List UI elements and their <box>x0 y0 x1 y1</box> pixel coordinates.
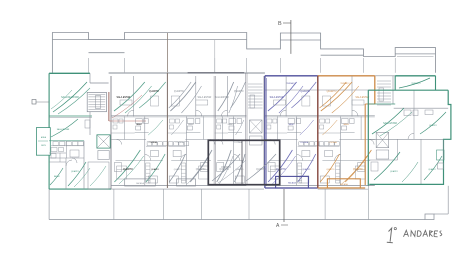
svg-text:COZINHA: COZINHA <box>149 141 158 144</box>
svg-text:QUARTO: QUARTO <box>123 168 133 171</box>
svg-text:SALA ESTAR: SALA ESTAR <box>197 96 211 99</box>
svg-text:COZINHA: COZINHA <box>329 141 338 144</box>
svg-text:QUARTO: QUARTO <box>235 168 244 171</box>
svg-text:SALA DE ESTAR: SALA DE ESTAR <box>61 96 79 99</box>
svg-text:SALA ESTAR: SALA ESTAR <box>116 96 130 99</box>
svg-text:TERRAÇO: TERRAÇO <box>340 82 350 85</box>
svg-text:SERV: SERV <box>41 145 47 147</box>
svg-text:QUARTO: QUARTO <box>326 168 335 171</box>
svg-text:SACADA: SACADA <box>340 183 349 186</box>
svg-text:SALA ESTAR: SALA ESTAR <box>215 96 229 99</box>
svg-text:QUARTO: QUARTO <box>256 168 266 171</box>
svg-text:QUARTO: QUARTO <box>196 168 206 171</box>
svg-text:SACADA: SACADA <box>288 182 297 185</box>
svg-text:QUARTO: QUARTO <box>174 90 184 93</box>
svg-text:QUARTO: QUARTO <box>174 168 183 171</box>
svg-text:QUARTO: QUARTO <box>71 170 80 173</box>
svg-text:B: B <box>278 21 282 27</box>
svg-text:QUARTO: QUARTO <box>234 90 244 93</box>
svg-text:SALA ESTAR: SALA ESTAR <box>270 96 284 99</box>
svg-text:QUARTO: QUARTO <box>353 168 363 171</box>
svg-text:SALA ESTAR: SALA ESTAR <box>383 122 397 125</box>
svg-text:QUARTO: QUARTO <box>429 124 438 127</box>
svg-text:SACADA: SACADA <box>136 182 145 185</box>
svg-text:QUARTO: QUARTO <box>221 166 231 169</box>
svg-text:TERRAÇO: TERRAÇO <box>411 82 421 85</box>
svg-text:QUARTO: QUARTO <box>302 168 311 171</box>
svg-text:TERRAÇO: TERRAÇO <box>286 82 296 85</box>
svg-text:SALA JANTAR: SALA JANTAR <box>57 128 70 131</box>
svg-text:QUARTO: QUARTO <box>276 168 286 171</box>
svg-text:QUARTO: QUARTO <box>151 168 160 171</box>
svg-text:BANHO: BANHO <box>54 175 61 178</box>
svg-text:COZINHA: COZINHA <box>300 141 309 144</box>
svg-text:COZINHA: COZINHA <box>176 141 185 144</box>
svg-text:QUARTO: QUARTO <box>390 170 399 173</box>
svg-text:SALA ESTAR: SALA ESTAR <box>355 96 369 99</box>
svg-text:QUARTO: QUARTO <box>149 90 159 93</box>
svg-text:QUARTO: QUARTO <box>428 168 436 171</box>
svg-text:AREA: AREA <box>41 136 47 139</box>
svg-text:QUARTO: QUARTO <box>327 90 337 93</box>
svg-text:QUARTO: QUARTO <box>300 90 310 93</box>
